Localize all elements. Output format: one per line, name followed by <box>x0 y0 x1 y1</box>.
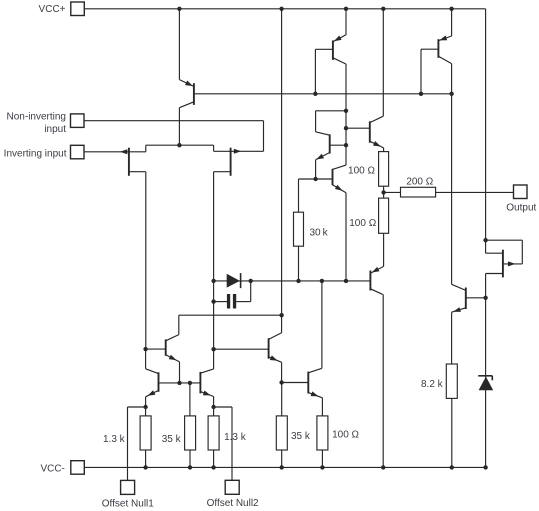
svg-text:100 Ω: 100 Ω <box>332 430 359 441</box>
svg-text:input: input <box>44 124 66 135</box>
svg-text:200 Ω: 200 Ω <box>406 176 433 187</box>
svg-text:1.3 k: 1.3 k <box>224 432 247 443</box>
svg-text:VCC-: VCC- <box>40 463 64 474</box>
svg-text:100 Ω: 100 Ω <box>349 218 376 229</box>
svg-text:Offset Null2: Offset Null2 <box>207 498 259 509</box>
svg-text:35 k: 35 k <box>291 431 311 442</box>
svg-text:Output: Output <box>506 202 536 213</box>
svg-text:30 k: 30 k <box>310 228 329 239</box>
svg-text:8.2 k: 8.2 k <box>421 379 444 390</box>
svg-text:Offset Null1: Offset Null1 <box>102 499 154 510</box>
svg-text:VCC+: VCC+ <box>39 4 66 15</box>
svg-text:1.3 k: 1.3 k <box>103 434 126 445</box>
svg-text:35 k: 35 k <box>162 434 182 445</box>
svg-text:Non-inverting: Non-inverting <box>7 112 66 123</box>
svg-text:100 Ω: 100 Ω <box>348 165 375 176</box>
svg-text:Inverting input: Inverting input <box>4 149 67 160</box>
